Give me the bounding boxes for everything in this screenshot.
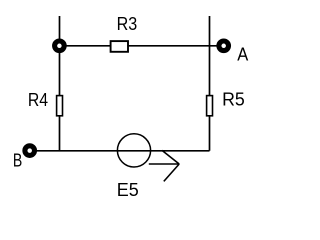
svg-text:A: A (237, 45, 248, 65)
svg-text:E5: E5 (117, 180, 139, 200)
svg-text:R5: R5 (222, 90, 245, 110)
svg-text:R4: R4 (28, 90, 48, 110)
svg-text:R3: R3 (117, 14, 138, 34)
svg-text:B: B (13, 151, 22, 171)
